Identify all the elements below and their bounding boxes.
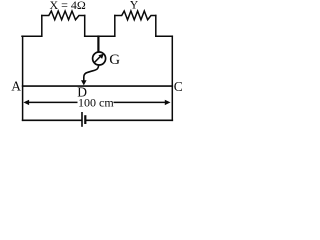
100cm right arrowhead [165, 100, 171, 105]
arrowhead onto node D [81, 80, 87, 85]
100cm left arrowhead [23, 100, 29, 105]
wire top-right rail [156, 35, 173, 37]
100cm arrow left segment [26, 101, 77, 103]
wire bottom left of battery [23, 119, 82, 121]
wire X-bump left riser [41, 16, 43, 37]
svg-text:C: C [174, 79, 183, 94]
wire Y-bump right riser [155, 16, 157, 37]
svg-text:A: A [11, 78, 21, 93]
wire right vertical C branch [171, 36, 173, 120]
battery short plate [84, 115, 86, 124]
100cm arrow right segment [114, 101, 168, 103]
wire left vertical A branch [22, 36, 24, 120]
wire top-left rail [22, 35, 42, 37]
wire mid rail [85, 35, 115, 37]
galvanometer needle [94, 56, 101, 63]
galvanometer G body [93, 52, 106, 65]
wire X-bump right riser [84, 16, 86, 37]
battery long plate [81, 112, 83, 127]
svg-text:X = 4Ω: X = 4Ω [50, 0, 86, 12]
svg-text:100 cm: 100 cm [78, 96, 114, 110]
svg-text:G: G [109, 52, 120, 68]
wire curved lead from G to D [84, 65, 99, 80]
resistor X1 zigzag with leads [42, 11, 85, 20]
wire bridge AC [23, 85, 173, 87]
svg-text:Y: Y [130, 0, 139, 11]
wire Y-bump left riser [114, 16, 116, 37]
galvanometer needle arrowhead [98, 54, 103, 59]
wire bottom right of battery [86, 119, 172, 121]
wire galvanometer stem [97, 35, 99, 51]
resistor Y zigzag with leads [115, 11, 156, 20]
